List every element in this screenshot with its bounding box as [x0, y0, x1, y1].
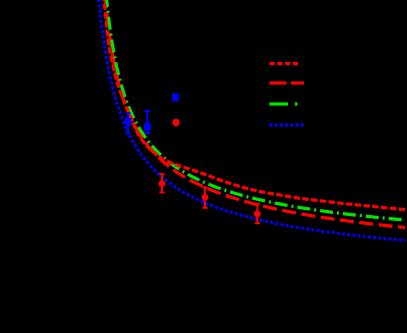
- curve: red long-dash fit: [105, 0, 405, 228]
- curve: green dash-dot fit: [106, 0, 405, 220]
- curve: blue dotted fit: [98, 0, 405, 240]
- blue square data point B with error bar: [144, 111, 151, 133]
- legend marker: blue square: [172, 94, 179, 102]
- curve: red short-dash fit: [103, 0, 407, 210]
- blue square data point A with error bar: [125, 113, 131, 134]
- red circle data point 3 with error bar: [254, 204, 261, 224]
- red circle data point 2 with error bar: [202, 187, 209, 208]
- legend marker: red circle: [172, 119, 179, 126]
- red circle data point 1 with error bar: [159, 174, 166, 192]
- legend line 1: red short-dash: [270, 62, 300, 65]
- legend line 2: red long-dash: [270, 81, 305, 84]
- legend line 3: green dash-dot: [270, 102, 305, 105]
- legend line 4: blue dotted: [270, 123, 305, 126]
